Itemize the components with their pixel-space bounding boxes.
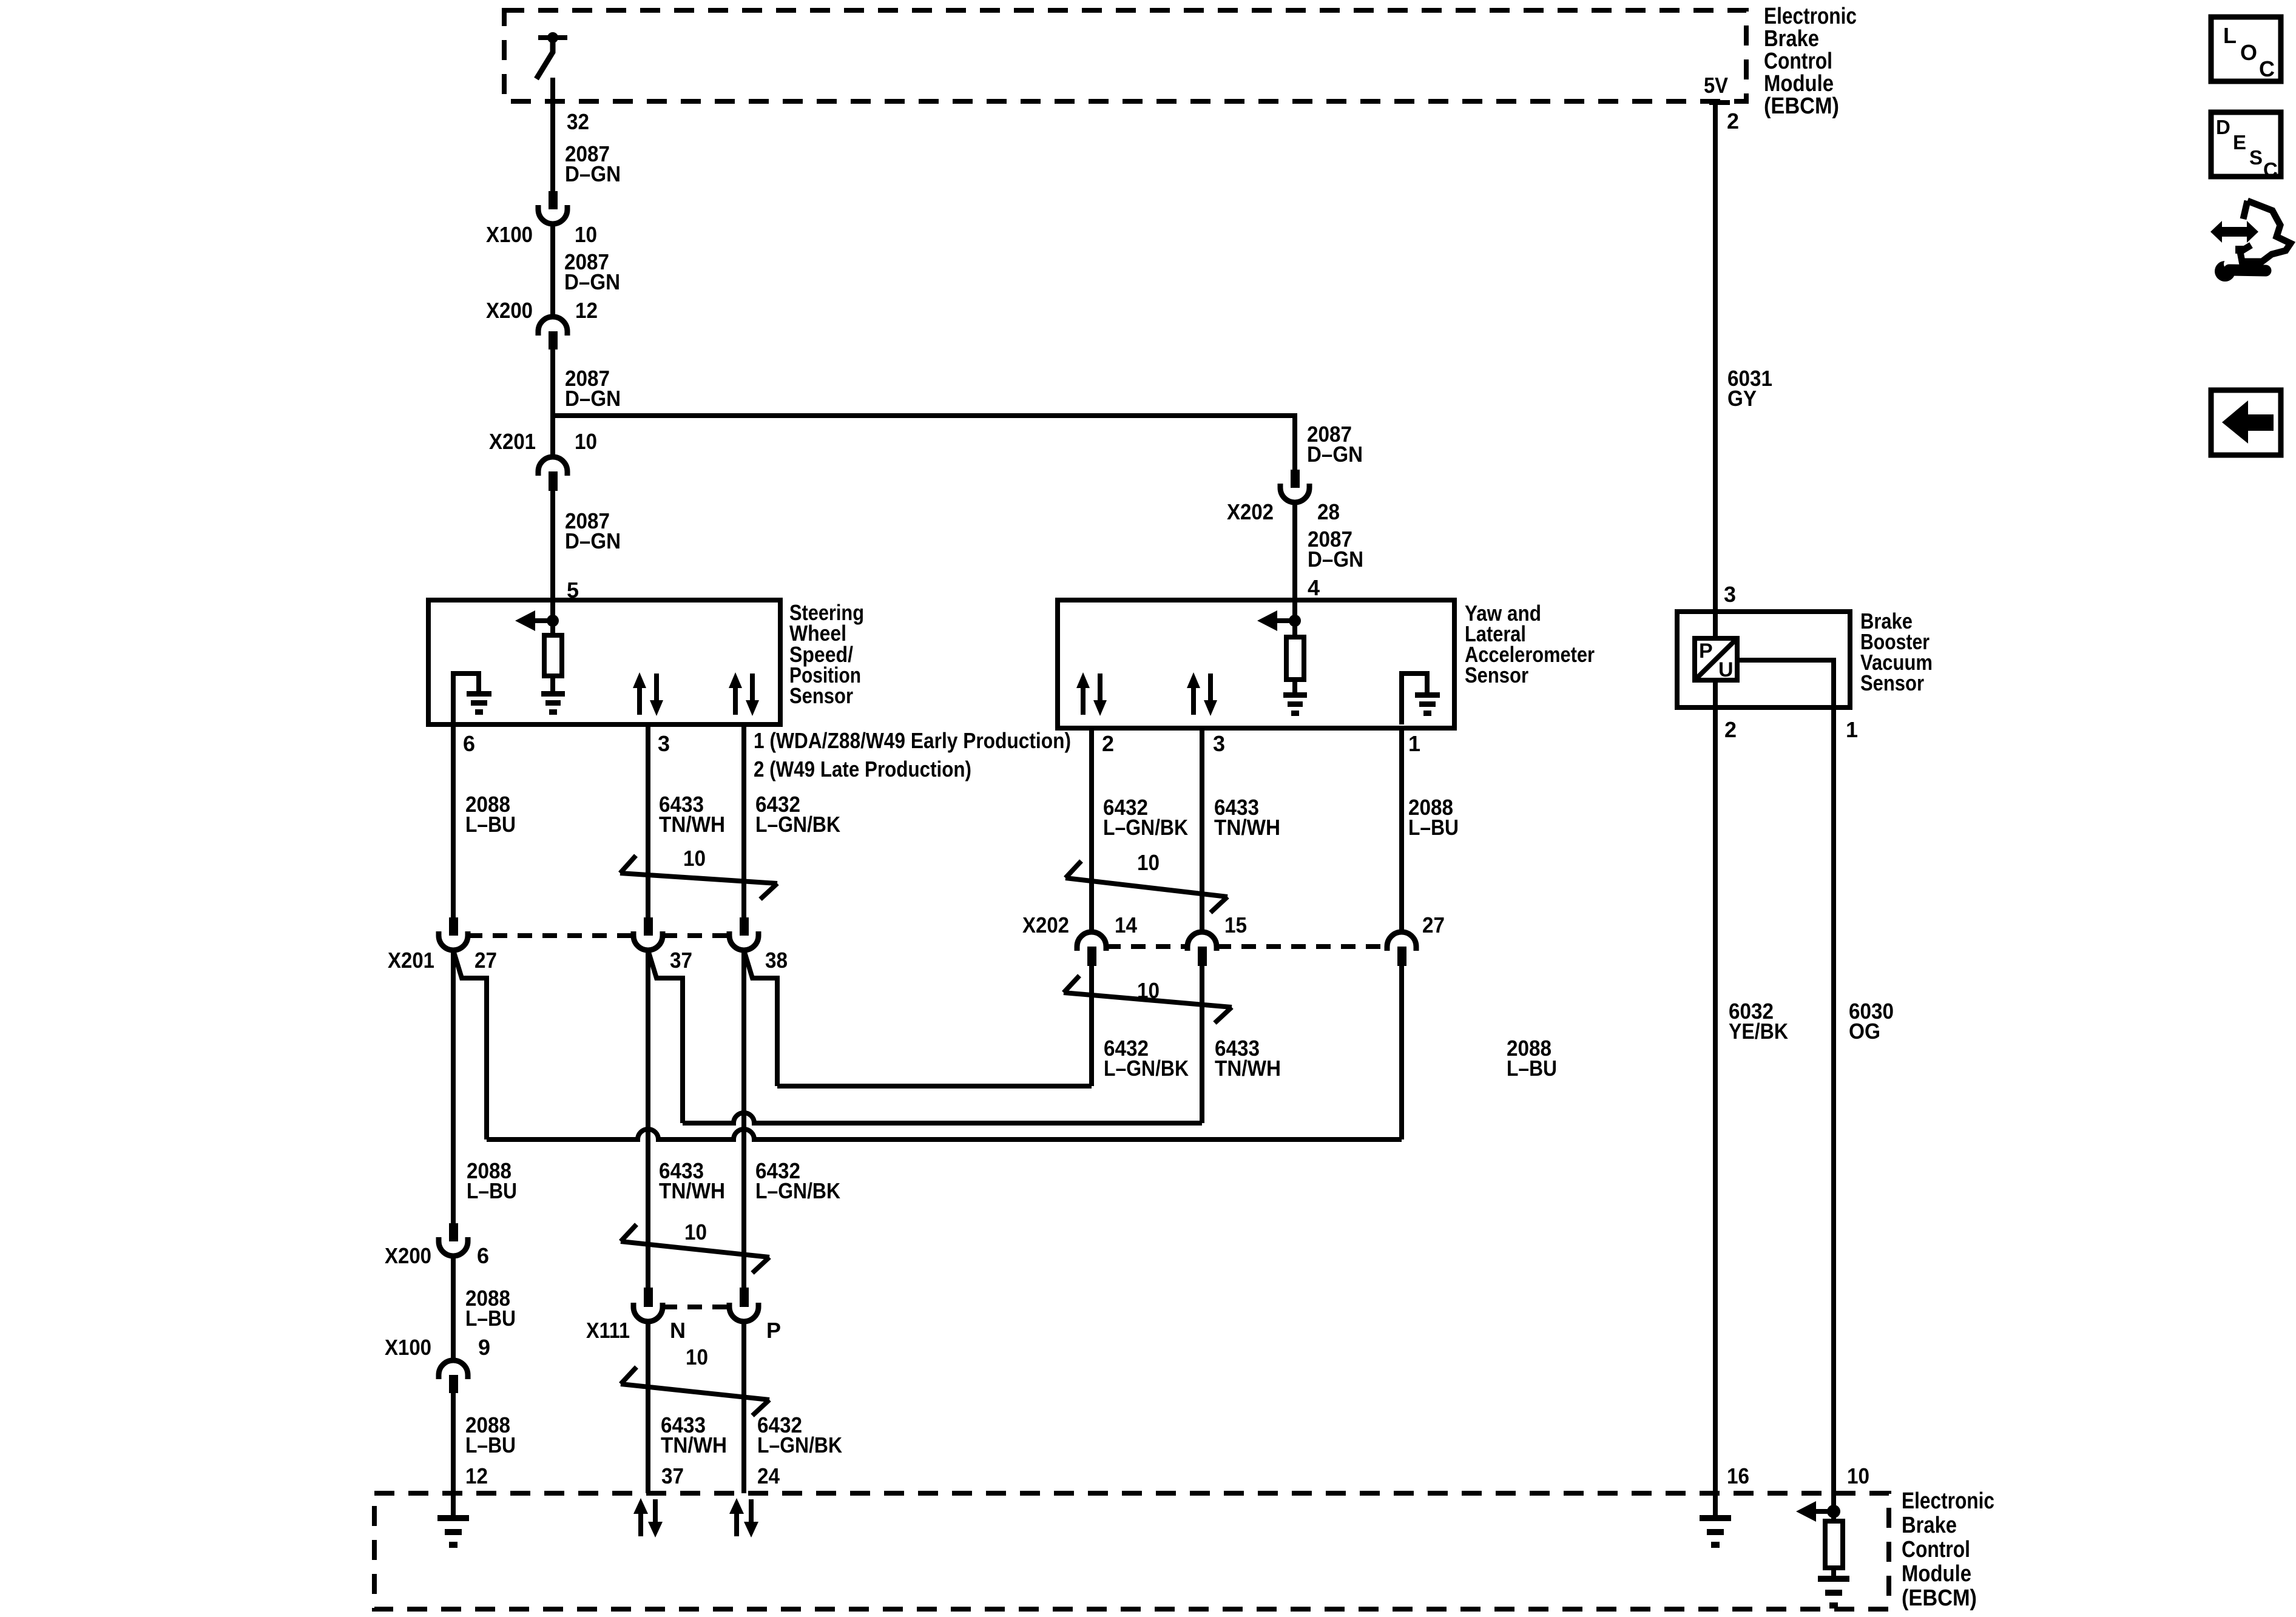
connector X111 pin N <box>586 1288 686 1343</box>
wire branch to X202-28 (2087 D-GN) <box>553 416 1295 470</box>
svg-text:TN/WH: TN/WH <box>1214 815 1280 840</box>
svg-text:L–BU: L–BU <box>1408 815 1459 840</box>
svg-text:Module: Module <box>1902 1561 1971 1587</box>
EBCM up/down arrows pin 37 <box>633 1498 663 1538</box>
svg-text:X200: X200 <box>385 1243 431 1268</box>
svg-text:Brake: Brake <box>1764 26 1819 52</box>
svg-text:S: S <box>2249 146 2263 169</box>
LOC icon box <box>2211 17 2281 81</box>
svg-text:TN/WH: TN/WH <box>659 812 725 837</box>
svg-text:D–GN: D–GN <box>565 161 621 186</box>
svg-text:3: 3 <box>1724 582 1736 607</box>
svg-text:10: 10 <box>1847 1463 1869 1488</box>
svg-text:D–GN: D–GN <box>565 528 621 553</box>
back arrow icon box <box>2211 390 2281 455</box>
wire run 2088 L-BU to yaw side (hops at 1068,1226) <box>487 1129 1402 1139</box>
wire run 6432 L-GN/BK to yaw side <box>777 1084 1092 1089</box>
X202 dashed connector line <box>1106 944 1187 949</box>
svg-text:O: O <box>2240 40 2257 65</box>
wire 2088 L-BU below X202 to run <box>1399 966 1404 1139</box>
svg-text:L–GN/BK: L–GN/BK <box>757 1433 842 1457</box>
Steering Wheel Speed/Position Sensor box <box>428 600 780 724</box>
steering: up/down arrows pin 3 <box>633 672 663 716</box>
svg-text:X201: X201 <box>388 948 434 973</box>
wire 2087 D-GN from EBCM pin 32 <box>550 78 555 191</box>
wire 6032 YE/BK booster pin 2 to EBCM pin 16 <box>1713 707 1718 1493</box>
yaw: up/down arrows pin 3 <box>1187 672 1217 716</box>
Brake Booster Vacuum Sensor box <box>1677 612 1850 707</box>
connector X202 pin 14 <box>1022 913 1137 966</box>
svg-text:37: 37 <box>670 948 692 973</box>
wire run 6433 TN/WH to yaw side (hop at 1226) <box>683 1113 1202 1123</box>
svg-text:4: 4 <box>1308 575 1320 600</box>
connector X111 pin P <box>729 1288 781 1343</box>
twisted pair symbol (10) center wires <box>621 1220 769 1273</box>
yaw: ground (pin 1 hook) <box>1402 673 1427 724</box>
svg-text:X100: X100 <box>486 222 533 247</box>
svg-text:U: U <box>1718 658 1734 681</box>
connector X201 pin 27 <box>388 917 497 973</box>
EBCM up/down arrows pin 24 <box>729 1498 758 1538</box>
svg-text:L–GN/BK: L–GN/BK <box>1104 1056 1189 1081</box>
svg-text:X202: X202 <box>1227 499 1274 524</box>
connector X100 pin 9 <box>385 1335 490 1393</box>
hand/wrench jump icon <box>2210 201 2291 282</box>
svg-text:12: 12 <box>465 1463 488 1488</box>
EBCM ground pin 16 <box>1713 1493 1718 1515</box>
svg-text:Electronic: Electronic <box>1902 1488 1994 1514</box>
svg-text:10: 10 <box>684 1220 707 1244</box>
wire 6433 TN/WH to EBCM pin 37 <box>646 1322 650 1493</box>
svg-text:10: 10 <box>686 1345 708 1369</box>
twisted pair symbol (10) yaw wires above X202 <box>1065 850 1227 913</box>
wire jog pin 38 to splice run <box>744 950 777 1086</box>
svg-text:P: P <box>1699 640 1713 663</box>
svg-text:X100: X100 <box>385 1335 431 1360</box>
svg-text:TN/WH: TN/WH <box>1215 1056 1281 1081</box>
connector X201 pin 37 <box>633 917 692 973</box>
svg-text:6: 6 <box>463 731 475 756</box>
booster P/U transducer box <box>1695 638 1737 681</box>
svg-text:X202: X202 <box>1022 913 1069 937</box>
connector X100 pin 10 <box>486 191 597 247</box>
steering: junction node <box>550 600 555 635</box>
connector X202 pin 28 <box>1227 470 1340 524</box>
EBCM top dashed box <box>504 10 1746 101</box>
wire 2087 D-GN <box>550 349 555 457</box>
wire 6432 L-GN/BK below X201 <box>741 950 746 1288</box>
svg-text:1: 1 <box>1408 731 1420 756</box>
twisted pair symbol (10) yaw wires below X202 <box>1064 976 1232 1023</box>
wire 2087 D-GN <box>550 224 555 317</box>
connector X202 pin 15 <box>1187 913 1247 966</box>
svg-text:E: E <box>2233 131 2246 154</box>
svg-text:3: 3 <box>658 731 670 756</box>
svg-text:D–GN: D–GN <box>1307 442 1363 467</box>
switch S inside EBCM <box>536 32 567 79</box>
svg-text:24: 24 <box>757 1463 780 1488</box>
wire jog pin 27 to splice run <box>453 950 487 1139</box>
svg-text:Electronic: Electronic <box>1764 4 1857 29</box>
connector X200 pin 6 <box>385 1223 489 1268</box>
wire 2088 L-BU to EBCM pin 12 <box>451 1393 456 1518</box>
svg-text:32: 32 <box>567 109 589 134</box>
svg-text:TN/WH: TN/WH <box>661 1433 727 1457</box>
EBCM 5V terminal <box>1709 100 1730 105</box>
svg-text:(EBCM): (EBCM) <box>1764 93 1839 119</box>
svg-text:28: 28 <box>1317 499 1340 524</box>
svg-text:Sensor: Sensor <box>789 683 853 708</box>
yaw: junction node <box>1292 600 1297 637</box>
svg-text:5V: 5V <box>1704 73 1728 98</box>
svg-text:Control: Control <box>1764 49 1832 74</box>
svg-text:Sensor: Sensor <box>1860 670 1924 695</box>
wire 6433 TN/WH below X202 to run <box>1200 966 1204 1123</box>
yaw: up/down arrows pin 2 <box>1076 672 1107 716</box>
svg-text:10: 10 <box>575 429 597 454</box>
svg-text:YE/BK: YE/BK <box>1729 1019 1788 1044</box>
X111 dashed connector line <box>663 1305 729 1309</box>
yaw: ground (center) <box>1283 692 1307 716</box>
svg-text:L–BU: L–BU <box>1507 1056 1557 1081</box>
svg-text:27: 27 <box>1422 913 1445 937</box>
svg-text:L–BU: L–BU <box>465 1306 516 1331</box>
steering: internal arrow <box>535 618 553 623</box>
wire 6433 TN/WH steering pin 3 <box>646 724 650 917</box>
wire 6031 GY EBCM pin 2 to booster pin 3 <box>1713 103 1718 612</box>
svg-text:D–GN: D–GN <box>564 269 620 294</box>
svg-text:X111: X111 <box>586 1318 630 1343</box>
wire 2088 L-BU yaw pin 1 <box>1399 728 1404 932</box>
Yaw and Lateral Accelerometer Sensor box <box>1058 600 1454 728</box>
wire 6432 L-GN/BK steering pin 1/2 <box>741 724 746 917</box>
wire 2088 L-BU below X201 <box>451 950 456 1223</box>
svg-text:OG: OG <box>1849 1019 1880 1044</box>
svg-text:N: N <box>670 1318 686 1343</box>
svg-text:D–GN: D–GN <box>565 386 621 411</box>
yaw: internal arrow <box>1277 618 1295 623</box>
EBCM pin 10 internal: node, arrow, resistor, ground <box>1831 1493 1836 1521</box>
svg-text:10: 10 <box>1137 850 1160 875</box>
svg-text:Brake: Brake <box>1902 1513 1957 1538</box>
svg-text:3: 3 <box>1213 731 1225 756</box>
svg-text:2 (W49 Late Production): 2 (W49 Late Production) <box>754 757 971 781</box>
svg-text:L–GN/BK: L–GN/BK <box>1103 815 1188 840</box>
EBCM ground pin 12 <box>437 1515 469 1548</box>
svg-text:37: 37 <box>661 1463 684 1488</box>
svg-text:10: 10 <box>575 222 597 247</box>
twisted pair symbol (10) steering wires <box>620 846 777 899</box>
wire 6432 L-GN/BK yaw pin 2 <box>1089 728 1094 932</box>
wire 2087 D-GN to steering sensor pin 5 <box>550 491 555 600</box>
svg-text:6: 6 <box>477 1243 489 1268</box>
svg-text:L–BU: L–BU <box>467 1178 517 1203</box>
svg-text:2: 2 <box>1727 109 1739 133</box>
svg-text:1: 1 <box>1846 717 1858 742</box>
svg-text:D–GN: D–GN <box>1308 547 1363 572</box>
svg-text:GY: GY <box>1727 386 1757 411</box>
wire jog pin 37 to splice run <box>648 950 683 1123</box>
wire 2088 L-BU steering pin 6 <box>451 724 456 917</box>
svg-text:14: 14 <box>1115 913 1137 937</box>
wire 6030 OG booster pin 1 to EBCM pin 10 <box>1831 707 1836 1493</box>
svg-text:X200: X200 <box>486 298 533 323</box>
connector X201 pin 10 <box>489 429 597 491</box>
booster internal wires <box>1713 612 1718 638</box>
svg-text:C: C <box>2263 158 2278 181</box>
svg-text:X201: X201 <box>489 429 536 454</box>
svg-text:L–BU: L–BU <box>465 1433 516 1457</box>
svg-text:D: D <box>2216 116 2230 138</box>
steering: ground (center) <box>541 691 565 715</box>
DESC icon box <box>2211 112 2281 181</box>
svg-text:L–GN/BK: L–GN/BK <box>755 1178 840 1203</box>
wire 6433 TN/WH below X201 <box>646 950 650 1288</box>
svg-text:2: 2 <box>1724 717 1737 742</box>
connector X201 pin 38 <box>729 917 788 973</box>
svg-text:2: 2 <box>1102 731 1114 756</box>
steering: resistor R <box>544 635 562 676</box>
wire 6432 L-GN/BK below X202 to run <box>1089 966 1094 1086</box>
steering: up/down arrows pin 1/2 <box>729 672 759 716</box>
svg-text:10: 10 <box>1137 978 1160 1003</box>
svg-text:1 (WDA/Z88/W49 Early Productio: 1 (WDA/Z88/W49 Early Production) <box>754 728 1071 753</box>
svg-text:38: 38 <box>765 948 788 973</box>
svg-text:P: P <box>766 1318 781 1343</box>
X201 dashed connector line <box>468 933 633 938</box>
svg-text:C: C <box>2259 56 2275 81</box>
svg-text:9: 9 <box>478 1335 490 1360</box>
wire 6432 L-GN/BK to EBCM pin 24 <box>741 1322 746 1493</box>
connector X200 pin 12 <box>486 298 598 349</box>
wire 2088 L-BU <box>451 1256 456 1360</box>
svg-text:L: L <box>2223 23 2237 48</box>
svg-text:Module: Module <box>1764 71 1834 96</box>
svg-text:16: 16 <box>1727 1463 1749 1488</box>
svg-text:Sensor: Sensor <box>1465 663 1528 687</box>
svg-text:L–GN/BK: L–GN/BK <box>755 812 840 837</box>
svg-text:12: 12 <box>575 298 598 323</box>
svg-text:Control: Control <box>1902 1537 1970 1562</box>
wire 2087 D-GN to yaw sensor pin 4 <box>1292 502 1297 600</box>
twisted pair symbol (10) below X111 <box>621 1345 769 1416</box>
yaw: resistor R <box>1286 637 1304 680</box>
svg-text:15: 15 <box>1224 913 1247 937</box>
svg-text:10: 10 <box>683 846 706 871</box>
EBCM bottom dashed box <box>374 1493 1889 1609</box>
svg-text:TN/WH: TN/WH <box>659 1178 725 1203</box>
steering: ground (pin 6 hook) <box>453 673 479 724</box>
svg-text:L–BU: L–BU <box>465 812 516 837</box>
connector X202 pin 27 <box>1387 913 1445 966</box>
svg-text:27: 27 <box>474 948 497 973</box>
svg-text:(EBCM): (EBCM) <box>1902 1585 1977 1611</box>
wire 6433 TN/WH yaw pin 3 <box>1200 728 1204 932</box>
